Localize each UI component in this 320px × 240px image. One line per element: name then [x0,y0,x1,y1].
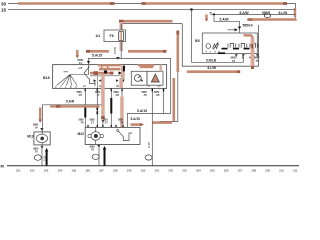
svg-text:15: 15 [1,8,7,13]
svg-text:5.A/15: 5.A/15 [137,109,147,113]
svg-text:-55: -55 [156,93,160,97]
wire 15 to B5 pin B [192,10,244,63]
svg-text:75: 75 [91,147,94,151]
svg-text:-78: -78 [115,93,119,97]
thin wire cluster [90,75,124,77]
arrow into M13 [40,128,43,131]
bold bar + wire x124 [123,65,125,81]
lamp symbol [206,44,211,49]
svg-text:585/14: 585/14 [243,23,253,27]
svg-text:585/5: 585/5 [262,11,270,15]
svg-text:202: 202 [168,169,173,173]
wire salmon 5.A/15 mid [88,50,109,53]
svg-text:A1: A1 [96,34,101,38]
svg-text:5.R/LB: 5.R/LB [206,58,217,62]
motor M13 internal stubs [41,132,43,145]
ground rail [7,165,299,167]
arrow stub 585/14 left [76,50,78,56]
svg-text:+05: +05 [78,66,83,70]
gauge box 2 warning [147,71,163,85]
motor M13 [36,134,47,143]
ground wire bold M32 [104,149,106,166]
svg-text:-76: -76 [78,93,82,97]
svg-text:5.A/W: 5.A/W [220,17,230,21]
svg-text:0.35: 0.35 [147,142,151,148]
arrow stub salmon top [205,15,207,20]
svg-text:195: 195 [71,169,76,173]
svg-text:M13: M13 [27,135,34,139]
node junction on 15 [190,8,193,11]
wire fuse feed horizontal [121,23,182,25]
wire 6.L/W salmon [188,70,238,73]
salmon internal top line [98,64,121,66]
motor M32 [91,132,100,141]
motor M32 internal stubs [95,127,97,144]
svg-text:193: 193 [44,169,49,173]
highlight 30 feed [120,20,173,23]
M32 bottom wire [98,145,100,166]
svg-text:210: 210 [279,169,284,173]
svg-text:0.5W: 0.5W [113,47,117,54]
svg-text:75: 75 [35,149,38,153]
wire 585/5 horizontal [211,13,296,15]
wire rail 15 [8,9,296,11]
svg-text:6.A/W: 6.A/W [240,11,250,15]
svg-text:207: 207 [238,169,243,173]
fusebox A1 [104,30,126,42]
highlight horizontal to ground drop [153,121,173,124]
splice oval M13 [34,155,41,160]
svg-text:M32: M32 [78,132,85,136]
pin ticks right B18 [151,88,153,91]
box M32 [85,127,140,144]
box M13 [34,132,50,145]
fuse wire vertical highlight [119,22,122,51]
svg-text:203: 203 [182,169,187,173]
svg-text:196: 196 [85,169,90,173]
arrow into B5 [238,27,241,30]
svg-text:B: B [242,56,244,60]
salmon cluster row2 [90,72,113,75]
connector brackets in B5 [228,44,258,48]
svg-text:0.35: 0.35 [43,155,47,161]
pin entry ticks M32 [88,125,123,128]
svg-text:208: 208 [251,169,256,173]
rheostat symbol [213,44,219,49]
svg-text:5.A/15: 5.A/15 [131,117,141,121]
svg-text:74: 74 [232,59,236,63]
wire B18 pin drop x152 to ground [151,88,153,165]
wire right vertical black [160,72,178,121]
svg-text:211: 211 [293,169,298,173]
svg-text:-78: -78 [120,120,124,124]
wires B18 to M32 [84,88,86,127]
svg-text:5.A/R: 5.A/R [66,99,75,103]
svg-text:B18: B18 [43,76,50,80]
connector arrows pair2 [116,79,119,82]
wire rail 30 highlight segment 1 [18,2,111,5]
salmon wire inside B5 [244,35,253,53]
svg-text:F6: F6 [110,34,114,38]
svg-text:5.A/15: 5.A/15 [92,54,102,58]
box B5 outer [182,24,258,67]
svg-text:14: 14 [35,125,38,129]
svg-text:201: 201 [155,169,160,173]
arrow right cluster [119,71,123,74]
wire long salmon 585/5 row2 [250,18,296,21]
B18 bottom pin ticks [84,88,86,91]
fuse F6 element [119,32,124,41]
highlight vertical B [173,78,176,121]
salmon cluster row1 [99,68,121,71]
svg-text:-77: -77 [104,120,108,124]
gauge box 1 [131,71,147,85]
wire rail 30 thin [8,4,296,20]
box B18 [53,65,167,89]
svg-text:200: 200 [141,169,146,173]
box B5 inner [202,33,257,54]
wire rail 30 right drop highlight [294,8,296,17]
node junction [213,13,215,15]
splice oval 585/5 [264,14,270,17]
svg-text:206: 206 [224,169,229,173]
splice oval ground drop [145,155,152,160]
switch M32 [117,130,119,132]
salmon blob above gauges [140,66,153,69]
fan symbol [64,71,69,73]
svg-text:209: 209 [265,169,270,173]
wire rail 30 highlight segment 2 [145,2,283,5]
svg-text:192: 192 [30,169,35,173]
junction dot cluster [104,70,107,73]
ground wire bold M13 [46,152,48,166]
svg-text:198: 198 [113,169,118,173]
salmon stub right top B18 [160,65,162,72]
svg-text:194: 194 [58,169,63,173]
junction blob fuse to wire [116,57,120,60]
svg-text:197: 197 [99,169,104,173]
track numbers [16,169,298,173]
wire +05 into B18 [88,65,90,75]
svg-text:A: A [249,56,251,60]
wide salmon vertical 1 [101,74,105,116]
bold contact dashes [222,48,228,50]
salmon stub arrow right of M32 [131,123,141,126]
svg-text:6.L/W: 6.L/W [208,66,217,70]
arrow ref into B5 left [228,29,235,31]
svg-text:30: 30 [1,1,7,6]
wire 5.A/15 black [89,58,171,127]
B5 pin stubs [235,54,237,58]
zigzag resistor B18 [84,67,95,87]
wide salmon vertical 2 [119,78,123,88]
wire 5.A/W branch [214,14,240,33]
wire inside B18 x97 [96,76,98,88]
wire B18 pin drop x163 [163,88,165,113]
pin arrows below B5 [235,54,238,56]
svg-text:75: 75 [256,59,260,63]
highlight vertical A [177,33,180,72]
svg-text:205: 205 [210,169,215,173]
connector arrows pair1 [94,79,97,82]
svg-text:-76: -76 [80,120,84,124]
svg-text:191: 191 [16,169,21,173]
svg-text:B5: B5 [195,39,200,43]
M13 bottom wire [41,145,43,166]
splice oval M32 [92,154,99,159]
wire salmon to M13 [43,104,102,106]
svg-text:199: 199 [127,169,132,173]
svg-text:6.L/W: 6.L/W [279,11,289,15]
svg-text:204: 204 [196,169,201,173]
svg-text:-75: -75 [143,93,147,97]
